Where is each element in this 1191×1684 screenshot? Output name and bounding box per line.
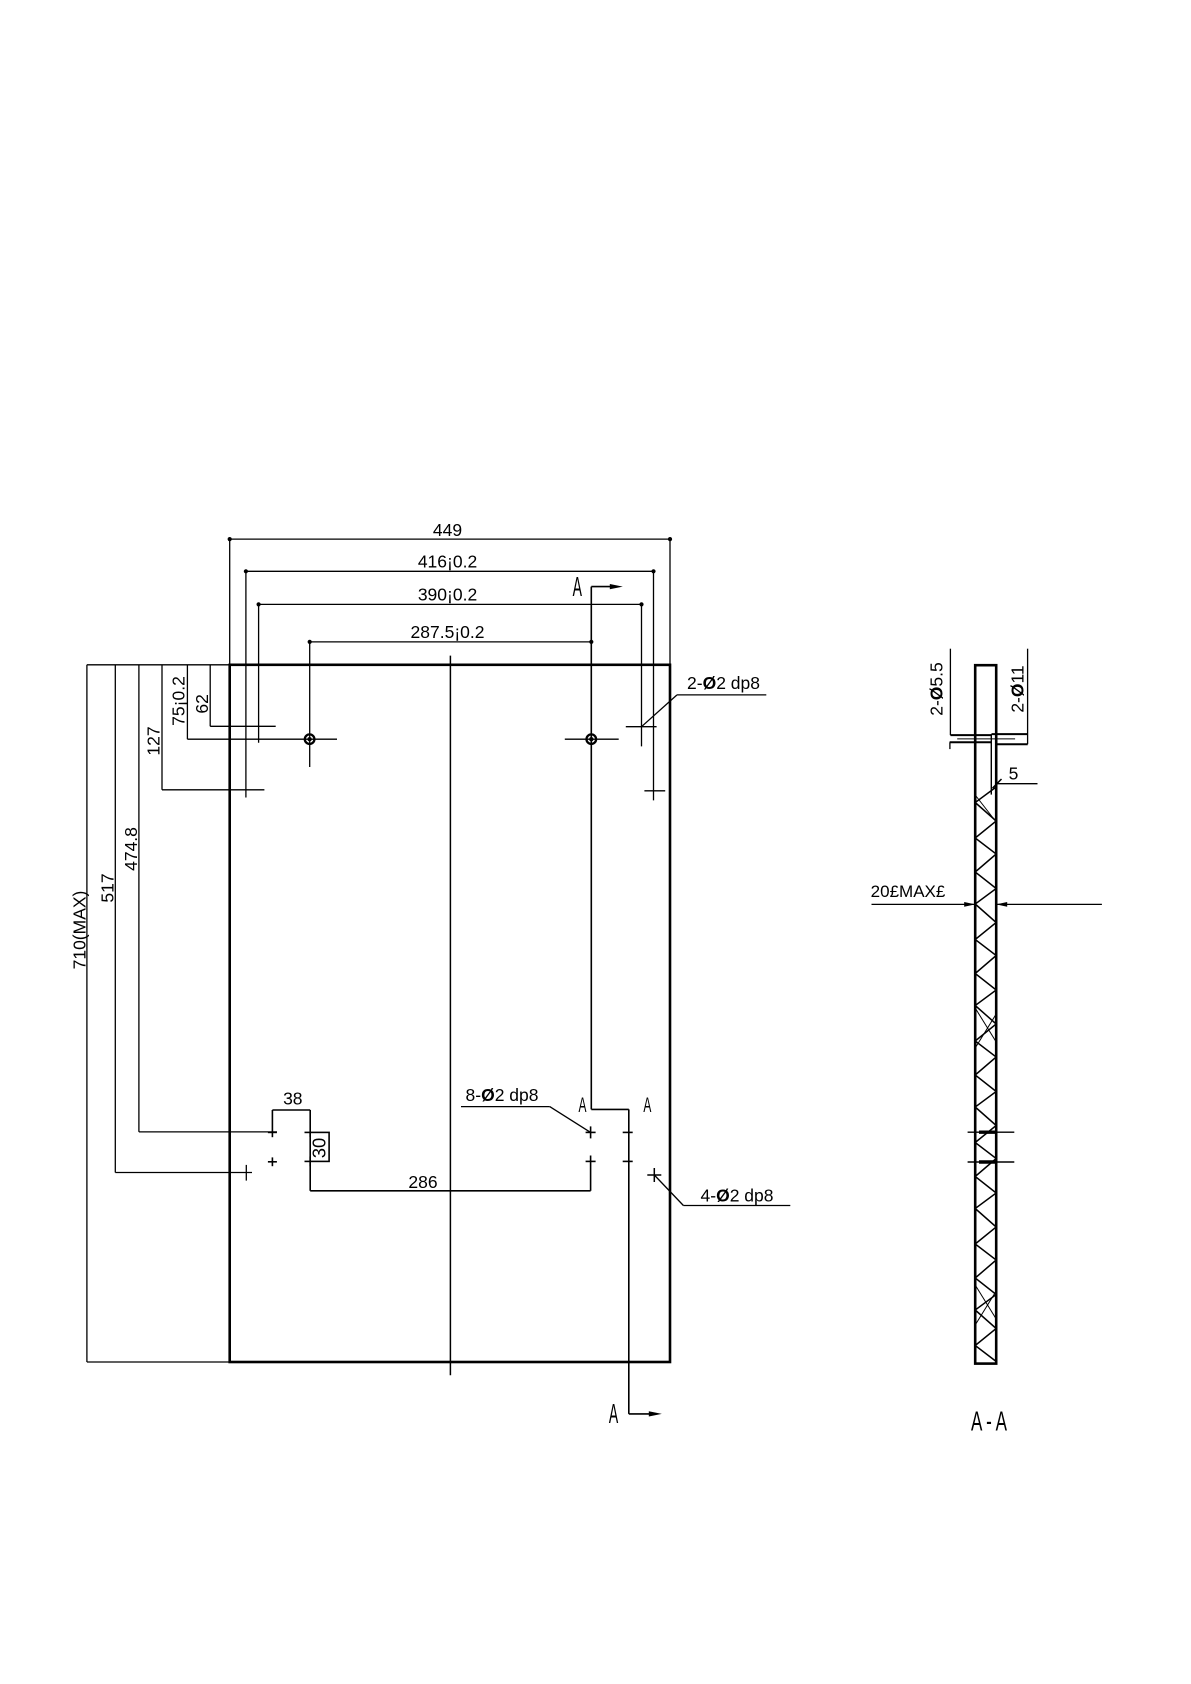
countersink top line left — [950, 734, 991, 736]
section hole row tick 2 thick — [979, 1160, 996, 1163]
svg-text:390¡0.2: 390¡0.2 — [418, 585, 477, 605]
countersink centerline — [957, 738, 1015, 740]
svg-text:287.5¡0.2: 287.5¡0.2 — [411, 622, 485, 642]
dim 287.5 line — [310, 641, 592, 643]
dim 474.8 extension to hole row — [139, 1131, 277, 1133]
dim 38 right tick — [309, 1110, 311, 1137]
hole column line 310.2 lower — [309, 1161, 311, 1190]
svg-text:5: 5 — [1009, 764, 1019, 784]
dim 390 line — [259, 603, 642, 605]
dim 517 extension to hole row — [115, 1172, 252, 1174]
dim 20MAX right line — [996, 903, 1102, 905]
countersink bottom line left — [950, 741, 992, 743]
svg-text:A: A — [579, 1094, 587, 1117]
dim 38 left tick — [271, 1110, 273, 1137]
svg-text:A: A — [643, 1094, 651, 1117]
svg-text:2-Ø2 dp8: 2-Ø2 dp8 — [687, 673, 760, 693]
section line A bottom arrow — [629, 1413, 651, 1415]
svg-text:2-Ø11: 2-Ø11 — [1008, 665, 1028, 712]
hole cross r1c3 — [586, 1131, 596, 1133]
dim 286 right extension — [590, 1156, 592, 1191]
panel outline (front view) — [230, 665, 670, 1362]
hole cross row62 right bar — [626, 726, 657, 728]
dim 127 extension to hole row — [162, 789, 264, 791]
svg-text:449: 449 — [433, 520, 462, 540]
hole cross r2c3 bar — [586, 1160, 596, 1162]
hole cross row127 right bar — [644, 790, 665, 792]
callout 8-Ø2 dp8 underline — [461, 1106, 550, 1108]
svg-text:A - A: A - A — [971, 1405, 1008, 1436]
dim 5 leader — [997, 783, 1038, 785]
svg-text:38: 38 — [283, 1089, 302, 1109]
bottom edge extension line to left dims — [87, 1361, 230, 1363]
dim 2-Ø5.5 extension line — [949, 649, 951, 735]
dim 449 right extension — [669, 539, 671, 665]
svg-text:30: 30 — [308, 1138, 329, 1159]
section line A jog — [591, 1108, 629, 1110]
section hatch extra diagonals — [975, 1008, 996, 1042]
svg-text:A: A — [573, 570, 582, 602]
dim 75 extension / hole 1 centerline — [187, 738, 337, 740]
dim 75 line — [186, 665, 188, 739]
callout 4-Ø2 dp8 leader — [654, 1175, 683, 1206]
dim 287.5 left extension to hole — [309, 642, 311, 767]
section line A top arrow — [591, 586, 614, 588]
svg-text:75¡0.2: 75¡0.2 — [169, 676, 189, 726]
svg-text:127: 127 — [144, 726, 164, 755]
dim 30 box nubs — [305, 1131, 311, 1133]
svg-text:286: 286 — [408, 1172, 437, 1192]
hole cross r1c4 — [623, 1131, 633, 1133]
countersink bottom line right — [996, 743, 1027, 745]
svg-text:20£MAX£: 20£MAX£ — [871, 882, 946, 901]
hole 2 ring (right countersunk hole) — [587, 734, 597, 744]
section hole row tick 1 thick — [979, 1130, 996, 1133]
callout 4-Ø2 dp8 underline — [683, 1205, 790, 1207]
svg-text:2-Ø5.5: 2-Ø5.5 — [927, 662, 947, 716]
dim 517 line — [114, 665, 116, 1173]
section hole row tick 1 — [968, 1131, 1015, 1133]
dim 2-Ø11 extension line — [1027, 649, 1029, 745]
dim 286 line — [310, 1190, 590, 1192]
section bar outline — [975, 665, 996, 1363]
hole 1 ring (left countersunk hole) — [305, 734, 315, 744]
hole cross r2c2 tick — [309, 1157, 311, 1167]
dim 390 right extension — [641, 604, 643, 746]
dim 20MAX left line — [872, 903, 976, 905]
svg-text:A: A — [609, 1398, 618, 1430]
hole cross r1c1 — [268, 1131, 277, 1133]
dim 416 right extension — [653, 571, 655, 800]
countersink inner step line — [990, 734, 992, 795]
svg-text:4-Ø2 dp8: 4-Ø2 dp8 — [701, 1186, 774, 1206]
dim 449 left extension — [229, 539, 231, 665]
svg-text:62: 62 — [192, 694, 212, 713]
dim 710(MAX) line — [86, 665, 88, 1362]
dim 416 line — [246, 570, 654, 572]
section hole row tick 2 — [968, 1161, 1015, 1163]
hole 2 horizontal centerline — [565, 738, 619, 740]
dim 474.8 line — [138, 665, 140, 1132]
dim 62 extension to hole row — [210, 725, 276, 727]
hole cross 517 row left — [245, 1165, 247, 1181]
hole 1 center dot — [307, 737, 311, 741]
callout 2-Ø2 dp8 underline — [677, 694, 766, 696]
svg-text:474.8: 474.8 — [121, 827, 141, 871]
svg-text:710(MAX): 710(MAX) — [70, 891, 90, 970]
section line A vertical lower — [628, 1109, 630, 1414]
section line A vertical upper — [590, 587, 592, 1110]
svg-text:517: 517 — [98, 873, 118, 902]
panel vertical center line — [449, 656, 451, 1376]
callout 8-Ø2 dp8 leader — [550, 1107, 591, 1133]
dim 30 box — [310, 1132, 329, 1161]
dim 38 line — [272, 1109, 310, 1111]
dim 449 line — [230, 538, 670, 540]
dim 416 left extension — [245, 571, 247, 797]
dim 390 left extension — [258, 604, 260, 742]
hole cross r2c4 — [623, 1160, 633, 1162]
hole 2 center dot — [589, 737, 593, 741]
dim 2-Ø5.5 extension hook — [949, 742, 951, 749]
section hatch zigzag — [975, 787, 996, 1362]
hole cross r2c1 — [268, 1161, 277, 1163]
svg-text:416¡0.2: 416¡0.2 — [418, 552, 477, 572]
callout 2-Ø2 dp8 leader — [642, 695, 678, 727]
hole cross 4hole bottom right — [647, 1174, 661, 1176]
countersink top line right — [992, 733, 1028, 735]
svg-text:8-Ø2 dp8: 8-Ø2 dp8 — [466, 1085, 539, 1105]
dim 127 line — [161, 665, 163, 790]
top edge extension line to left dims — [87, 664, 230, 666]
dim 62 line — [209, 665, 211, 727]
